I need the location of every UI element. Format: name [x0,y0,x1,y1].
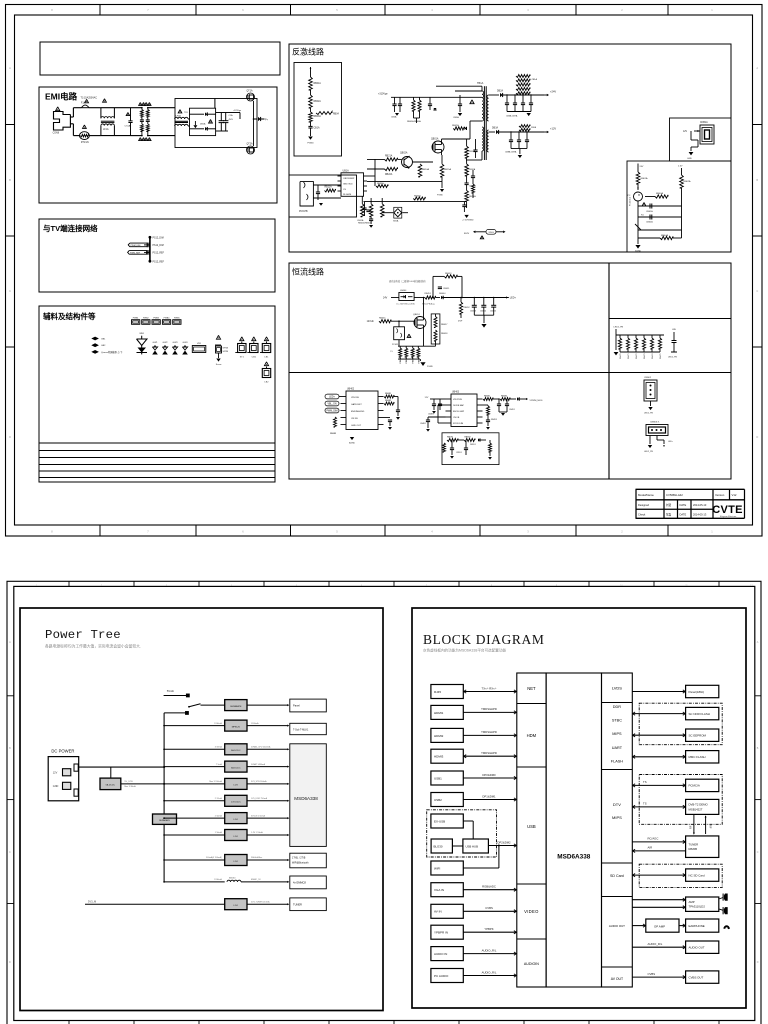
svg-text:D: D [757,961,759,964]
svg-text:CB12A: CB12A [469,185,476,188]
svg-text:CN FB: CN FB [351,418,358,420]
svg-text:CON8: CON8 [53,133,60,135]
svg-text:RB482: RB482 [385,400,392,402]
svg-text:OB2263MP: OB2263MP [343,178,355,180]
svg-text:DP2&DM2: DP2&DM2 [497,840,511,844]
svg-text:5A DCDC: 5A DCDC [231,749,241,752]
svg-text:Model/Name: Model/Name [638,493,654,497]
svg-text:RB21A: RB21A [385,155,393,158]
svg-text:CB3A: CB3A [453,116,459,119]
svg-text:各路电源标称均为工作最大值，实际电流会留小会留较大.: 各路电源标称均为工作最大值，实际电流会留小会留较大. [45,644,141,649]
svg-text:RB61A: RB61A [641,177,648,180]
svg-text:B0530: B0530 [229,878,236,880]
svg-text:XB1A: XB1A [393,220,399,223]
svg-text:HDMI1: HDMI1 [434,711,444,715]
svg-text:GW1: GW1 [153,342,159,344]
svg-text:12V: 12V [425,397,429,399]
svg-text:24V: 24V [383,297,388,300]
svg-text:CV56BH-A42: CV56BH-A42 [666,493,683,497]
svg-text:5A DCDC: 5A DCDC [231,766,241,769]
svg-text:LF2A: LF2A [176,115,182,118]
svg-text:1930mA: 1930mA [214,878,222,881]
svg-text:LDO: LDO [234,785,239,787]
svg-text:1930mA: 1930mA [214,722,222,725]
svg-text:5V_STB: 5V_STB [124,781,133,783]
svg-text:+310Vge: +310Vge [378,93,388,96]
svg-text:12V: 12V [683,131,688,133]
svg-text:1 4V 1 53mA: 1 4V 1 53mA [251,831,263,834]
svg-text:2 50mA: 2 50mA [215,814,223,817]
svg-text:CB1A: CB1A [314,127,320,130]
svg-text:AV OUT: AV OUT [611,977,623,981]
svg-text:YPBPK: YPBPK [484,927,493,931]
svg-text:RB03A: RB03A [314,115,322,118]
svg-text:RB461: RB461 [406,358,408,364]
svg-text:UB403: UB403 [452,392,460,394]
svg-text:SD Card: SD Card [610,874,624,878]
svg-text:OP AMP: OP AMP [654,924,665,928]
svg-text:PGND: PGND [307,143,314,145]
svg-text:QT1A: QT1A [247,90,253,93]
svg-text:QB451: QB451 [413,314,421,316]
svg-text:1.8 DCDC: 1.8 DCDC [231,802,241,804]
svg-text:MIPS: MIPS [612,732,622,736]
svg-text:反激线路: 反激线路 [292,47,324,57]
svg-text:RB452: RB452 [464,307,471,309]
svg-text:LB404: LB404 [400,290,407,292]
svg-text:GND VDD: GND VDD [343,184,353,186]
svg-text:Check: Check [638,513,646,517]
svg-text:STBC: STBC [612,719,622,723]
svg-text:VBL_ON: VBL_ON [327,404,336,406]
svg-text:RB458: RB458 [441,333,448,335]
svg-text:DVB-T2 DEMO: DVB-T2 DEMO [689,803,709,807]
svg-text:D: D [9,961,11,964]
svg-text:DC POWER: DC POWER [51,749,74,754]
svg-text:PWB2: PWB2 [143,318,150,320]
svg-text:+370Vge: +370Vge [233,110,242,112]
svg-text:LDO: LDO [234,861,239,863]
svg-text:LED2_PB: LED2_PB [668,357,677,359]
svg-text:C: C [756,289,758,293]
svg-text:500mA(3 700mA): 500mA(3 700mA) [206,856,222,859]
svg-text:CB491: CB491 [509,409,515,411]
svg-text:TX+/- RX+/-: TX+/- RX+/- [482,686,497,690]
svg-text:5V3_TUNER 213mA: 5V3_TUNER 213mA [251,900,270,903]
svg-text:1%: 1% [390,351,393,353]
svg-text:DP1&DM1: DP1&DM1 [482,794,496,798]
svg-text:CB61A: CB61A [646,210,653,213]
svg-text:5V8A5_CPU 2500mA: 5V8A5_CPU 2500mA [251,746,271,749]
svg-text:AUDIO OUT: AUDIO OUT [609,924,625,928]
svg-text:TMDS&HPD: TMDS&HPD [481,751,497,755]
svg-text:TS: TS [643,802,647,806]
svg-text:LDO: LDO [234,905,239,907]
svg-text:12V: 12V [53,772,58,775]
svg-text:CNB1A: CNB1A [700,121,708,124]
svg-text:YPBPR IN: YPBPR IN [434,931,448,935]
svg-text:PGND: PGND [437,195,443,197]
svg-text:RB22A: RB22A [385,173,393,176]
svg-text:Screw: Screw [216,364,222,366]
svg-text:EMMC_5V: EMMC_5V [251,879,261,881]
svg-text:DATE: DATE [680,503,687,507]
svg-text:PWM_DIM: PWM_DIM [131,245,141,247]
svg-text:DB2A: DB2A [497,90,503,93]
svg-text:1 50mA: 1 50mA [215,831,223,834]
svg-text:LED+: LED+ [510,297,517,300]
svg-text:FLASH: FLASH [611,759,623,763]
svg-text:LED+: LED+ [329,397,335,399]
svg-text:C: C [9,289,11,293]
svg-text:PC AUDIO: PC AUDIO [434,974,449,978]
svg-text:AUDIO IN: AUDIO IN [434,952,447,956]
svg-text:张磊: 张磊 [666,513,672,517]
svg-text:GND OUT: GND OUT [351,425,362,427]
svg-text:PWM_DIM: PWM_DIM [326,411,337,413]
svg-text:FSYN ILIM: FSYN ILIM [453,423,463,425]
svg-text:CB62A: CB62A [646,221,653,224]
svg-text:A: A [756,66,758,70]
svg-text:CB481: CB481 [420,423,426,425]
svg-text:+24V: +24V [550,90,556,94]
svg-text:DTV: DTV [613,802,621,807]
svg-text:RB33A: RB33A [469,195,476,198]
svg-text:PWB5: PWB5 [174,318,181,320]
svg-text:RB483: RB483 [330,433,337,435]
svg-text:AUDIO_R/L: AUDIO_R/L [648,942,663,946]
svg-text:ZB1A: ZB1A [532,78,538,81]
svg-text:SP1B: SP1B [223,348,229,350]
svg-text:C: C [757,851,759,854]
svg-text:AUDIOIN: AUDIOIN [524,962,539,966]
svg-text:450V: 450V [229,119,234,121]
svg-text:B24V: B24V [464,233,470,235]
svg-text:VIN SW: VIN SW [351,397,360,399]
svg-text:PWB4: PWB4 [164,318,171,320]
svg-text:RB591: RB591 [447,437,454,439]
svg-text:LVDS: LVDS [612,686,622,691]
svg-text:T-Sub T-MLK1: T-Sub T-MLK1 [293,728,309,731]
svg-text:RB32A: RB32A [469,168,476,171]
svg-text:GND: GND [53,785,59,788]
svg-text:12Vstb: 12Vstb [367,320,375,323]
svg-text:EX-USB: EX-USB [434,819,445,823]
svg-text:TUNER: TUNER [689,843,699,847]
svg-text:CN FB: CN FB [453,417,460,419]
svg-text:VIDEO: VIDEO [524,909,539,914]
svg-text:RB491: RB491 [484,396,491,398]
svg-text:4x EMMC8: 4x EMMC8 [293,881,306,885]
svg-text:EMI电路: EMI电路 [45,92,78,102]
svg-text:24V: 24V [640,166,644,168]
svg-text:RB01A: RB01A [314,82,322,85]
svg-text:MSB1422T: MSB1422T [689,807,703,811]
svg-text:RB457: RB457 [441,324,448,326]
svg-text:AV IN: AV IN [434,910,442,914]
svg-text:DB404: DB404 [439,293,446,295]
svg-text:RC/AGC: RC/AGC [648,837,659,841]
svg-text:A: A [9,66,11,70]
svg-text:CNB02: CNB02 [644,377,652,379]
svg-text:USB: USB [527,824,536,829]
svg-text:NET: NET [527,686,536,691]
svg-text:RB35A: RB35A [377,182,384,185]
svg-text:2.5V: 2.5V [678,166,683,168]
svg-text:MSD6A338: MSD6A338 [294,796,318,801]
svg-text:T3.15A250VAC: T3.15A250VAC [81,97,98,100]
svg-text:PS12_REF: PS12_REF [153,253,165,255]
svg-text:EN/DIM&GND: EN/DIM&GND [351,411,365,413]
svg-text:Power Tree: Power Tree [45,628,121,642]
svg-text:RB492: RB492 [501,396,508,398]
svg-text:RI GATE: RI GATE [343,193,352,196]
svg-text:UART: UART [612,746,623,750]
svg-text:1V5_DDR 750mA: 1V5_DDR 750mA [251,797,268,800]
svg-text:RJ45: RJ45 [434,690,441,694]
svg-text:PCMCIA: PCMCIA [689,784,700,788]
svg-text:GB1: GB1 [101,339,106,341]
svg-text:PWB1: PWB1 [133,318,140,320]
svg-text:RB455: RB455 [379,318,386,320]
svg-text:1T-BL / 2T/B: 1T-BL / 2T/B [292,857,306,860]
svg-text:RB04: RB04 [333,114,339,116]
svg-text:WIFI: WIFI [434,866,440,870]
svg-text:QB01A: QB01A [431,138,439,141]
svg-text:RB02A: RB02A [314,100,322,103]
svg-text:5Vstb: 5Vstb [167,689,175,693]
svg-text:AMP: AMP [689,900,695,904]
svg-text:TMDS&HPD: TMDS&HPD [481,707,497,711]
svg-text:3 59mA: 3 59mA [215,746,223,749]
svg-text:AGND: AGND [349,442,355,445]
svg-text:ISCFB EAP: ISCFB EAP [453,404,464,407]
svg-text:HDM: HDM [527,733,537,738]
svg-text:RB472: RB472 [636,354,638,360]
svg-text:RB460: RB460 [400,358,402,364]
svg-text:DDR: DDR [613,705,621,709]
svg-text:CNB03 /1: CNB03 /1 [650,422,660,424]
svg-text:RB64A: RB64A [661,234,668,237]
svg-text:CVBS: CVBS [648,972,656,976]
svg-text:EARPHONE: EARPHONE [689,924,705,928]
svg-text:GW4: GW4 [183,342,189,344]
svg-text:PWM_REF: PWM_REF [130,252,141,254]
svg-text:PC817B: PC817B [299,211,308,213]
svg-text:RB481: RB481 [385,393,392,395]
svg-text:BLG30: BLG30 [434,844,443,848]
svg-text:C: C [9,851,11,854]
svg-text:GND: GND [687,158,692,160]
svg-text:TS: TS [643,780,647,784]
svg-text:QT2A: QT2A [247,143,253,146]
svg-text:CB454: CB454 [480,311,487,313]
svg-text:刘贤: 刘贤 [666,503,672,507]
svg-text:Designed: Designed [638,503,650,507]
svg-text:RB592: RB592 [465,437,472,439]
svg-text:RGB&ADC: RGB&ADC [482,885,496,889]
svg-text:RB475: RB475 [660,354,662,360]
svg-text:CB455: CB455 [490,311,497,313]
svg-text:RT1/VA: RT1/VA [81,141,89,144]
svg-text:5A DCDC: 5A DCDC [106,783,116,786]
svg-text:PC: PC [628,195,631,197]
svg-text:GW2: GW2 [163,342,169,344]
svg-text:HDMI2: HDMI2 [434,734,444,738]
svg-text:PS12_REF: PS12_REF [153,261,165,263]
svg-text:7 5mA: 7 5mA [216,763,222,766]
svg-text:R820B: R820B [689,847,698,851]
svg-text:USB1: USB1 [434,776,442,780]
svg-text:RB462: RB462 [413,358,415,364]
svg-text:TMDS&HPD: TMDS&HPD [481,730,497,734]
svg-text:1930mA: 1930mA [251,722,259,725]
svg-text:SEPARATE: SEPARATE [159,819,170,822]
svg-text:灰色虚线框内的功能为MSD6A338平台可选配置功能: 灰色虚线框内的功能为MSD6A338平台可选配置功能 [423,648,506,653]
svg-text:TPA3110LD2: TPA3110LD2 [689,905,706,909]
svg-text:CB6A CB7A: CB6A CB7A [506,115,518,118]
svg-text:C1A: C1A [229,114,234,117]
svg-text:Shiyuan Electron: Shiyuan Electron [720,515,737,518]
svg-text:Max 3 190mA: Max 3 190mA [209,780,222,783]
svg-text:VGA IN: VGA IN [434,888,444,892]
svg-text:D: D [9,435,11,439]
svg-text:TUNER: TUNER [293,902,302,906]
svg-text:CC-T(B/GND)-L(S/B): CC-T(B/GND)-L(S/B) [396,304,415,306]
svg-text:PWB3: PWB3 [153,318,160,320]
svg-text:5V8A7 1480mA: 5V8A7 1480mA [251,763,266,766]
svg-text:SC EEPROM: SC EEPROM [689,734,707,738]
svg-text:2014-05-13: 2014-05-13 [693,503,707,507]
svg-text:DATE: DATE [680,513,687,517]
svg-text:LED2_PB: LED2_PB [644,451,653,453]
svg-text:QB02A: QB02A [400,152,408,155]
svg-text:CB483: CB483 [428,414,434,416]
svg-text:CB41A: CB41A [357,219,364,222]
svg-text:与TV端连接网络: 与TV端连接网络 [43,223,98,233]
svg-text:RB05A RB06A: RB05A RB06A [407,120,421,123]
svg-text:DB1A: DB1A [200,123,206,126]
svg-text:SC NOR FLASH: SC NOR FLASH [689,712,710,716]
svg-text:RB34A: RB34A [414,195,421,198]
svg-text:RB25A: RB25A [444,168,451,171]
svg-text:DB591: DB591 [470,444,476,446]
svg-text:MMC FLASH: MMC FLASH [689,755,706,759]
svg-text:+7.5VSGND: +7.5VSGND [462,220,474,222]
svg-text:AIR: AIR [648,846,653,850]
svg-text:GATE BST: GATE BST [351,403,362,406]
svg-text:RB63A: RB63A [656,192,663,195]
svg-text:RB473: RB473 [644,354,646,360]
svg-text:SP2B: SP2B [223,351,229,353]
svg-text:Max 3 38mA: Max 3 38mA [124,785,136,788]
svg-text:+12V: +12V [550,127,556,131]
svg-text:SEPARATE: SEPARATE [230,705,242,708]
svg-text:B: B [756,178,758,182]
svg-text:RF: RF [709,825,713,829]
svg-text:24Vd: 24Vd [488,232,494,234]
svg-text:RB62A: RB62A [684,180,691,183]
svg-text:DB3A: DB3A [492,127,498,130]
svg-text:NC SD Card: NC SD Card [689,873,705,877]
svg-text:WB1: WB1 [139,333,145,335]
svg-text:VIN PSW: VIN PSW [453,399,462,401]
svg-text:V12: V12 [732,493,737,497]
svg-text:LDO: LDO [234,819,239,821]
svg-text:Panel(18bit): Panel(18bit) [689,690,705,694]
svg-text:PC451: PC451 [392,344,399,346]
svg-text:CB591: CB591 [456,452,462,454]
svg-text:RB471: RB471 [628,354,630,360]
svg-text:RB24A: RB24A [422,168,429,171]
svg-text:3V3_M: 3V3_M [88,899,96,903]
svg-text:LF1A: LF1A [103,128,109,131]
svg-text:BSOS GMP: BSOS GMP [453,411,465,413]
svg-text:CB451: CB451 [443,288,450,290]
svg-text:B: B [9,178,11,182]
svg-text:RB11A: RB11A [325,186,333,189]
svg-text:Version: Version [715,493,725,497]
svg-text:2014-05-13: 2014-05-13 [693,513,707,517]
svg-text:SGND: SGND [635,251,642,253]
svg-text:PS12_DIM: PS12_DIM [153,245,164,247]
svg-text:ZB2A: ZB2A [531,126,537,129]
svg-text:TB1A: TB1A [477,82,484,85]
svg-text:WiFi&t&Blue: WiFi&t&Blue [251,856,263,859]
svg-text:LED2_PB: LED2_PB [614,327,624,329]
svg-text:LDO: LDO [234,836,239,838]
svg-text:GW3: GW3 [173,342,179,344]
svg-text:CB453: CB453 [470,311,477,313]
svg-text:CB2A: CB2A [391,116,397,119]
svg-text:恒流线路: 恒流线路 [292,267,324,277]
svg-text:RB474: RB474 [652,354,654,360]
svg-text:LED2_PB: LED2_PB [644,413,653,415]
svg-text:AUDIO_R/L: AUDIO_R/L [482,948,497,952]
svg-text:3V3_STB 264mA: 3V3_STB 264mA [251,780,267,783]
svg-text:PGND: PGND [427,366,433,368]
svg-text:RB453: RB453 [445,273,452,275]
svg-text:辅料及结构件等: 辅料及结构件等 [43,311,96,321]
svg-text:DP0&DM0: DP0&DM0 [482,773,496,777]
svg-text:GB2: GB2 [101,345,106,347]
svg-text:WiFi&Bluetooth: WiFi&Bluetooth [292,862,309,865]
svg-text:BLOCK DIAGRAM: BLOCK DIAGRAM [423,632,544,647]
svg-text:RB07A: RB07A [452,124,459,127]
svg-text:CVBS: CVBS [485,906,493,910]
svg-text:CX1A: CX1A [125,125,131,128]
svg-text:USB2: USB2 [434,798,442,802]
svg-text:D: D [756,435,758,439]
svg-text:Panel: Panel [293,704,300,708]
svg-text:AUDIO_R/L: AUDIO_R/L [482,970,497,974]
svg-text:PS12_DIM: PS12_DIM [153,238,164,240]
svg-text:RF: RF [689,825,693,829]
svg-text:HDMI3: HDMI3 [434,755,444,759]
svg-text:RB470: RB470 [620,354,622,360]
svg-text:RB493: RB493 [491,419,497,421]
svg-text:VPWM_MOS: VPWM_MOS [530,400,544,402]
svg-text:3V3_M 1 50mA: 3V3_M 1 50mA [251,814,265,817]
svg-text:PC123C1: PC123C1 [630,196,632,206]
svg-text:CB8A CB9A: CB8A CB9A [505,151,517,154]
svg-text:MP8126: MP8126 [232,726,241,728]
svg-text:USB HUB: USB HUB [466,844,479,848]
svg-text:CVTE: CVTE [712,504,743,516]
svg-text:LED+: LED+ [668,441,674,443]
svg-text:AUDIO OUT: AUDIO OUT [689,946,705,950]
svg-text:RB451: RB451 [425,293,432,295]
